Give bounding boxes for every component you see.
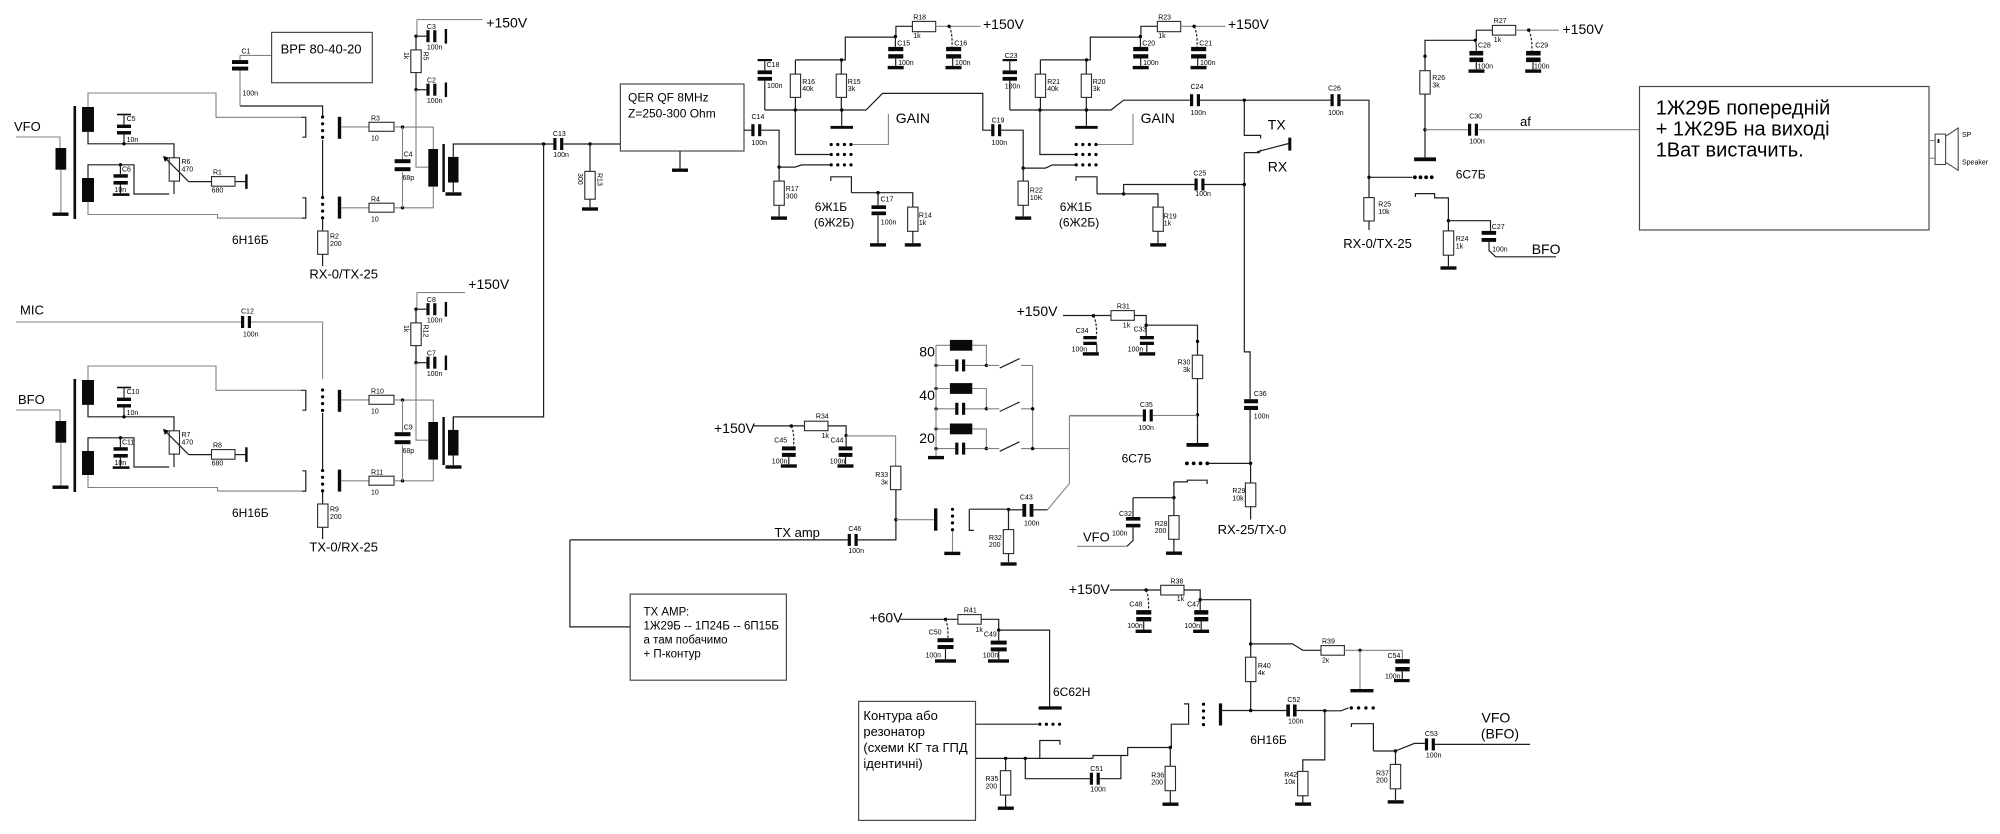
- wire R41 to C49 node: [981, 619, 999, 630]
- resistor R13: [589, 144, 591, 207]
- capacitor C17: [877, 193, 879, 244]
- ground C47: [1193, 630, 1209, 633]
- svg-text:3k: 3k: [1093, 86, 1101, 93]
- tube V5 cathode: [1415, 194, 1448, 221]
- svg-text:C4: C4: [404, 151, 413, 158]
- junction R30 top: [1196, 340, 1199, 343]
- capacitor C50: [946, 619, 948, 638]
- ground C28: [1469, 69, 1485, 72]
- capacitor C11: [119, 436, 122, 439]
- tube V2 6H16B upper triode cathode: [301, 390, 306, 410]
- wire C35 line: [1069, 414, 1197, 416]
- svg-text:1k: 1k: [402, 52, 409, 60]
- resistor R35: [1005, 758, 1007, 806]
- wire R7 wiper to R8: [189, 454, 212, 456]
- wire T3 upper to cathode V2a: [88, 366, 301, 390]
- capacitor C47: [1200, 600, 1201, 630]
- svg-text:200: 200: [989, 542, 1001, 549]
- ground R37: [1388, 800, 1404, 803]
- capacitor C5: [117, 114, 131, 116]
- capacitor C35: [1143, 409, 1153, 421]
- svg-text:470: 470: [182, 439, 194, 446]
- svg-text:R24: R24: [1456, 236, 1469, 243]
- box output note: [1640, 87, 1930, 231]
- wire R27 to +150V: [1516, 29, 1559, 31]
- junction R3: [401, 125, 404, 128]
- svg-text:BFO: BFO: [1532, 241, 1561, 257]
- capacitor C18: [758, 59, 772, 61]
- svg-text:R26: R26: [1432, 75, 1445, 82]
- wire C19 to grid: [1001, 130, 1023, 168]
- wire C13 to QER: [563, 143, 620, 145]
- svg-text:+150V: +150V: [1069, 581, 1111, 597]
- svg-text:10n: 10n: [127, 137, 139, 144]
- svg-text:R12: R12: [422, 325, 429, 338]
- svg-text:R25: R25: [1378, 202, 1391, 209]
- svg-text:C47: C47: [1187, 601, 1200, 608]
- svg-text:100n: 100n: [1328, 110, 1344, 117]
- svg-text:BFO: BFO: [18, 392, 45, 407]
- svg-text:100n: 100n: [881, 220, 897, 227]
- svg-text:GAIN: GAIN: [896, 110, 930, 126]
- tube V1 lower triode cathode: [302, 198, 306, 218]
- svg-text:+150V: +150V: [1563, 21, 1605, 37]
- svg-text:100n: 100n: [1127, 623, 1143, 630]
- capacitor C12: [241, 316, 251, 328]
- svg-text:6Н16Б: 6Н16Б: [1250, 733, 1287, 747]
- tube V7 grid: [951, 508, 954, 532]
- tube V9 6N16B triode2 plate: [1350, 689, 1373, 692]
- junction C45: [790, 424, 793, 427]
- resistor R11: [369, 476, 394, 485]
- svg-text:R33: R33: [875, 472, 888, 479]
- wire tank1: [936, 345, 986, 365]
- capacitor C1: [240, 55, 272, 106]
- svg-text:1k: 1k: [1164, 220, 1172, 227]
- resistor R12: [415, 309, 417, 363]
- capacitor C10: [117, 387, 131, 389]
- svg-text:C51: C51: [1090, 766, 1103, 773]
- resistor R29: [1250, 463, 1252, 483]
- svg-text:6С62Н: 6С62Н: [1053, 685, 1090, 699]
- svg-text:C20: C20: [1142, 40, 1155, 47]
- svg-text:R11: R11: [371, 470, 383, 477]
- tube V8 cathode: [1040, 741, 1060, 759]
- svg-text:68p: 68p: [403, 448, 415, 455]
- tube V1 upper grid: [321, 115, 324, 139]
- svg-text:68p: 68p: [403, 175, 415, 182]
- tube V7 cathode: [969, 509, 974, 530]
- svg-text:C53: C53: [1425, 731, 1438, 738]
- junction C10: [122, 415, 125, 418]
- svg-text:6Ж1Б: 6Ж1Б: [1060, 200, 1092, 214]
- wire R9 to TX-0/RX-25: [322, 527, 324, 539]
- junction cathode V5: [1447, 219, 1450, 222]
- wire to C43: [1009, 509, 1023, 511]
- wire C33 node to R30: [1146, 325, 1197, 355]
- wire T3 lower-mid to C11 and R7 bottom: [88, 438, 174, 467]
- switch TX/RX: [1244, 100, 1261, 152]
- svg-text:1Ват вистачить.: 1Ват вистачить.: [1656, 140, 1804, 162]
- wire R5 node down to T2: [416, 90, 428, 168]
- svg-text:RX-0/TX-25: RX-0/TX-25: [1343, 236, 1412, 251]
- svg-text:C36: C36: [1254, 391, 1267, 398]
- svg-text:10: 10: [371, 489, 379, 496]
- svg-text:4к: 4к: [1258, 670, 1266, 677]
- svg-text:100n: 100n: [1191, 110, 1207, 117]
- resistor R34: [805, 421, 829, 431]
- svg-text:R28: R28: [1155, 521, 1168, 528]
- junction R10: [401, 398, 404, 401]
- svg-text:Speaker: Speaker: [1962, 160, 1989, 167]
- inductor L1 80m: [950, 340, 972, 351]
- svg-text:C3: C3: [427, 24, 436, 31]
- ground C17: [870, 243, 886, 246]
- box BPF 80-40-20: [272, 32, 373, 82]
- wire to grid dots: [1369, 176, 1413, 178]
- svg-text:C43: C43: [1020, 494, 1033, 501]
- svg-text:R39: R39: [1322, 638, 1335, 645]
- junction R16: [794, 108, 797, 111]
- wire R10 to node: [394, 400, 433, 422]
- resistor R19: [1153, 207, 1163, 231]
- svg-text:R5: R5: [422, 52, 429, 61]
- resistor R20: [1085, 60, 1087, 110]
- wire C51 path: [1025, 756, 1121, 779]
- ground: [446, 192, 462, 195]
- transformer T3 core: [74, 379, 77, 492]
- wire cathode to C32: [1133, 497, 1174, 499]
- resistor R22: [1022, 168, 1024, 216]
- wire V3 plate bus: [765, 93, 991, 130]
- ground: [672, 169, 688, 172]
- svg-text:100n: 100n: [427, 45, 443, 52]
- wire R33 to plate node: [895, 490, 897, 520]
- wire BFO input: [16, 410, 60, 421]
- svg-text:100n: 100n: [992, 140, 1008, 147]
- wire R23 to +150V: [1181, 25, 1226, 27]
- capacitor C9: [402, 400, 404, 481]
- svg-text:VFO: VFO: [1482, 710, 1511, 726]
- svg-text:10к: 10к: [1284, 779, 1296, 786]
- switch 80m: [986, 364, 1032, 366]
- svg-text:100n: 100n: [767, 83, 783, 90]
- capacitor tank2: [955, 403, 965, 415]
- wire +150V to R31: [1063, 315, 1111, 317]
- wire T1 upper-mid to R6: [88, 132, 174, 158]
- svg-text:R21: R21: [1047, 79, 1060, 86]
- wire cathode to C27: [1448, 221, 1490, 231]
- junction C15: [894, 35, 897, 38]
- svg-text:10n: 10n: [115, 460, 127, 467]
- svg-text:C9: C9: [404, 424, 413, 431]
- svg-text:R2: R2: [330, 234, 339, 241]
- capacitor C20: [1139, 37, 1141, 66]
- svg-text:100n: 100n: [1426, 752, 1442, 759]
- junction C48: [1144, 588, 1147, 591]
- resistor R26: [1420, 71, 1430, 94]
- transformer T3 secondary winding upper: [82, 380, 94, 405]
- svg-text:R14: R14: [919, 213, 932, 220]
- svg-text:+60V: +60V: [869, 610, 903, 626]
- tube V1 lower grid: [321, 196, 324, 220]
- svg-text:1k: 1k: [913, 33, 921, 40]
- transformer T1 primary winding: [56, 148, 67, 170]
- wire C27 to BFO: [1489, 242, 1556, 257]
- svg-text:680: 680: [212, 188, 224, 195]
- capacitor C53: [1425, 738, 1435, 750]
- tube V4 grid row1: [1075, 143, 1098, 146]
- svg-text:1Ж29Б попередній: 1Ж29Б попередній: [1656, 98, 1831, 120]
- resistor R37: [1395, 751, 1397, 800]
- resistor R5: [415, 36, 417, 89]
- svg-text:C30: C30: [1469, 114, 1482, 121]
- wire down to C36: [1244, 185, 1250, 463]
- svg-text:+150V: +150V: [1017, 303, 1059, 319]
- svg-text:резонатор: резонатор: [863, 724, 925, 739]
- wire R1 to terminal: [235, 181, 246, 183]
- capacitor C7: [416, 362, 426, 364]
- wire R39 to C54: [1344, 650, 1402, 659]
- svg-text:R27: R27: [1494, 18, 1507, 25]
- terminal bar R8: [245, 447, 247, 462]
- wire C53 to VFO(BFO): [1435, 743, 1530, 745]
- wire to V4 grid3: [1023, 165, 1075, 168]
- svg-text:100n: 100n: [1184, 623, 1200, 630]
- wire +150V top: [417, 20, 483, 37]
- transformer T4 right winding: [448, 430, 459, 456]
- junction R37: [1394, 749, 1397, 752]
- resistor R4: [369, 203, 394, 212]
- svg-text:C28: C28: [1478, 43, 1491, 50]
- svg-text:C19: C19: [992, 118, 1005, 125]
- svg-text:C27: C27: [1492, 224, 1505, 231]
- resistor R14: [908, 207, 918, 231]
- svg-text:C45: C45: [774, 438, 787, 445]
- svg-text:100n: 100n: [1469, 138, 1485, 145]
- capacitor C15: [894, 37, 896, 66]
- junction C3: [414, 35, 417, 38]
- junction C28: [1474, 39, 1477, 42]
- svg-text:100n: 100n: [848, 548, 864, 555]
- svg-text:100п: 100п: [926, 653, 942, 660]
- svg-text:200: 200: [1151, 779, 1163, 786]
- resistor R10: [369, 395, 394, 404]
- wire grid to C36 node: [1209, 462, 1251, 464]
- tube V5 6S7B grid: [1413, 175, 1417, 179]
- svg-text:C48: C48: [1129, 601, 1142, 608]
- capacitor tank3: [955, 443, 965, 455]
- wire R40 to plate line: [1250, 682, 1252, 711]
- ground C29: [1525, 69, 1541, 72]
- wire MIC line: [16, 322, 323, 379]
- svg-text:C25: C25: [1193, 170, 1206, 177]
- junction common 20m: [1031, 447, 1034, 450]
- svg-text:6С7Б: 6С7Б: [1122, 452, 1152, 466]
- junction tank2 right: [985, 407, 988, 410]
- svg-text:680: 680: [212, 461, 224, 468]
- svg-text:100n: 100n: [427, 318, 443, 325]
- svg-text:100n: 100n: [752, 140, 768, 147]
- transformer T4 core: [442, 417, 444, 465]
- tube V3 cathode: [831, 177, 852, 193]
- junction R15: [840, 108, 843, 111]
- svg-text:C15: C15: [897, 40, 910, 47]
- wire T1 lower-mid to C6 and R6 bottom: [88, 165, 174, 194]
- tube V9 triode2 grid: [1350, 706, 1353, 709]
- transformer T1 core: [74, 106, 77, 219]
- ground R14: [905, 243, 921, 246]
- svg-text:R1: R1: [213, 170, 222, 177]
- wire C25 to TX/RX: [1205, 184, 1245, 186]
- junction TX/RX top: [1243, 99, 1246, 102]
- resistor R41: [958, 615, 981, 625]
- resistor R31: [1111, 311, 1134, 321]
- svg-text:(6Ж2Б): (6Ж2Б): [814, 216, 854, 230]
- svg-text:2к: 2к: [1322, 658, 1330, 665]
- tube V6 grid: [1185, 462, 1189, 466]
- capacitor C19: [991, 124, 1001, 136]
- svg-text:200: 200: [1155, 528, 1167, 535]
- tube V1 lower plate: [338, 197, 341, 219]
- wire T4 output to TX vertical: [452, 417, 454, 430]
- svg-text:100n: 100n: [1492, 246, 1508, 253]
- wire QER ground: [679, 151, 681, 169]
- junction C17: [876, 191, 879, 194]
- wire C24 to TX/RX: [1200, 99, 1331, 101]
- wire cathode V3: [851, 193, 912, 207]
- tube V9 triode1 grid: [1202, 703, 1205, 727]
- terminal bar R1: [245, 174, 247, 189]
- junction plate V7: [894, 518, 897, 521]
- wire af line: [1425, 129, 1640, 131]
- wire C14 to grid: [761, 130, 779, 167]
- svg-text:SP: SP: [1962, 132, 1972, 139]
- svg-text:6С7Б: 6С7Б: [1456, 168, 1486, 182]
- inductor L2 40m: [950, 383, 972, 394]
- svg-text:R35: R35: [986, 776, 999, 783]
- svg-text:+ П-контур: + П-контур: [644, 649, 701, 661]
- ground C49: [988, 659, 1009, 662]
- junction C7: [414, 361, 417, 364]
- junction R21: [1038, 108, 1041, 111]
- tube V3 grid row1: [830, 143, 853, 146]
- wire tank3: [936, 429, 986, 449]
- resistor R36: [1169, 748, 1171, 803]
- svg-text:1k: 1k: [1456, 244, 1464, 251]
- junction plate V9b: [1358, 649, 1361, 652]
- junction C2: [414, 88, 417, 91]
- ground: [53, 486, 69, 489]
- svg-text:10k: 10k: [1378, 209, 1390, 216]
- svg-text:100n: 100n: [427, 98, 443, 105]
- capacitor C2: [416, 89, 426, 91]
- junction C51: [1024, 757, 1027, 760]
- svg-text:+150V: +150V: [486, 15, 528, 31]
- ground C20: [1133, 66, 1149, 69]
- wire plate V1a to R3: [341, 126, 369, 128]
- svg-text:C29: C29: [1535, 43, 1548, 50]
- wire QER out: [744, 129, 751, 131]
- tube V9 triode2 cathode: [1351, 724, 1373, 751]
- box resonator: [859, 701, 976, 820]
- wire V7 grid to ground: [952, 531, 954, 552]
- junction tank1 right: [985, 364, 988, 367]
- svg-text:C34: C34: [1076, 328, 1089, 335]
- tube V8 grid: [1038, 723, 1061, 726]
- ground R22: [1015, 216, 1031, 219]
- resistor R32: [1008, 510, 1010, 563]
- capacitor C49: [998, 630, 1000, 659]
- svg-text:1k: 1k: [1123, 322, 1131, 329]
- svg-text:20: 20: [919, 430, 935, 446]
- ground V7 grid: [944, 552, 960, 555]
- svg-text:40k: 40k: [802, 86, 814, 93]
- capacitor C45: [791, 426, 793, 447]
- ground R19: [1150, 243, 1166, 246]
- svg-text:C44: C44: [831, 438, 844, 445]
- svg-text:(схеми КГ та ГПД: (схеми КГ та ГПД: [863, 740, 967, 755]
- svg-text:R31: R31: [1117, 304, 1130, 311]
- wire R2 to RX-0/TX-25: [322, 254, 324, 266]
- capacitor C43: [1022, 504, 1026, 517]
- transformer T3 secondary winding lower: [82, 451, 94, 475]
- wire plate V7: [896, 519, 934, 521]
- svg-text:6Ж1Б: 6Ж1Б: [815, 200, 847, 214]
- wire cathode V8 line: [976, 748, 1171, 759]
- svg-text:10K: 10K: [1030, 195, 1043, 202]
- svg-text:а там побачимо: а там побачимо: [644, 635, 728, 647]
- svg-text:10: 10: [371, 408, 379, 415]
- resistor R16: [794, 60, 796, 110]
- capacitor C29: [1529, 30, 1532, 51]
- tube V9 triode1 cathode: [1171, 704, 1188, 748]
- junction tank1 left: [934, 364, 937, 367]
- ground C15: [888, 66, 904, 69]
- junction common 40m: [1031, 407, 1034, 410]
- resistor R15: [840, 60, 842, 110]
- wire T1 lower to cathode V1b: [88, 202, 302, 218]
- svg-text:R22: R22: [1030, 187, 1043, 194]
- svg-text:R40: R40: [1258, 663, 1271, 670]
- junction C21: [1192, 25, 1195, 28]
- wire TX amp line: [570, 520, 896, 540]
- ground band switch: [928, 456, 944, 459]
- capacitor C24: [1190, 94, 1200, 106]
- capacitor C48: [1146, 590, 1148, 610]
- svg-text:R20: R20: [1093, 79, 1106, 86]
- svg-text:TX: TX: [1268, 117, 1287, 133]
- ground C21: [1191, 66, 1207, 69]
- wire T2 right to ground: [452, 183, 454, 193]
- svg-text:100n: 100n: [553, 152, 569, 159]
- junction R36: [1169, 746, 1172, 749]
- wire cathode V9b to R37: [1373, 750, 1395, 752]
- svg-text:6Н16Б: 6Н16Б: [232, 506, 269, 520]
- wire band left vertical: [935, 345, 937, 456]
- svg-text:af: af: [1520, 114, 1531, 129]
- svg-text:TX amp: TX amp: [774, 525, 820, 540]
- wire supply bus stage2: [1040, 26, 1157, 60]
- svg-text:R3: R3: [371, 116, 380, 123]
- svg-text:1k: 1k: [976, 627, 984, 634]
- svg-text:100n: 100n: [427, 371, 443, 378]
- junction C33: [1145, 324, 1148, 327]
- wire cathode V7 to C43: [969, 508, 1008, 510]
- svg-text:R10: R10: [371, 389, 384, 396]
- wire C26 to grid V5: [1341, 100, 1370, 197]
- svg-text:1k: 1k: [1158, 33, 1166, 40]
